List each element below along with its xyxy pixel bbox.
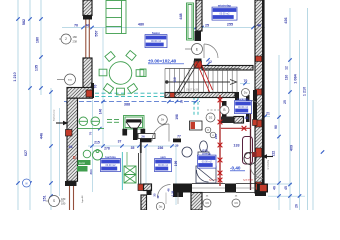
svg-text:kocio: kocio [79,161,86,165]
svg-text:90: 90 [274,125,278,129]
svg-text:00.00 m2: 00.00 m2 [158,164,169,167]
svg-text:45: 45 [284,186,288,190]
svg-text:70: 70 [244,79,248,83]
svg-text:180: 180 [61,197,66,201]
svg-text:151: 151 [43,195,47,201]
svg-text:Dri: Dri [161,118,165,121]
svg-text:C9: C9 [205,201,209,205]
svg-text:21: 21 [266,112,270,116]
svg-text:12: 12 [208,60,212,64]
svg-text:46: 46 [245,116,249,120]
svg-text:25: 25 [175,144,179,148]
svg-text:Dct: Dct [159,205,163,208]
svg-text:26: 26 [295,204,299,208]
svg-text:kuchnia: kuchnia [105,155,116,159]
svg-text:-0,40: -0,40 [230,166,241,171]
svg-text:D2: D2 [209,116,213,120]
svg-text:260: 260 [214,134,218,139]
svg-text:278: 278 [104,147,110,151]
svg-text:wiatrołap: wiatrołap [217,3,231,7]
svg-text:388: 388 [124,103,130,107]
svg-text:238: 238 [73,40,78,44]
svg-text:hydr.Ø115: hydr.Ø115 [209,179,220,182]
svg-text:1 084: 1 084 [294,73,298,83]
svg-text:135: 135 [35,65,39,71]
svg-text:46: 46 [68,145,72,149]
svg-text:00.00 m2: 00.00 m2 [238,106,249,109]
svg-text:Do: Do [244,91,248,95]
svg-text:409: 409 [289,145,293,151]
svg-text:77: 77 [177,135,181,139]
svg-text:480: 480 [138,23,144,27]
svg-text:46: 46 [273,186,277,190]
svg-text:28: 28 [180,100,184,104]
svg-text:70: 70 [94,85,98,89]
svg-text:133: 133 [233,144,239,148]
svg-text:180: 180 [61,202,66,206]
svg-text:1 210: 1 210 [13,72,17,81]
svg-text:hydr.Ø115: hydr.Ø115 [243,179,254,182]
svg-text:00.00 m2: 00.00 m2 [220,12,231,15]
svg-text:C9: C9 [234,201,238,205]
svg-text:1 210: 1 210 [303,87,307,96]
svg-text:70: 70 [74,23,78,27]
svg-text:E: E [73,155,76,160]
svg-text:448: 448 [179,13,183,19]
svg-text:±0.00=102,40: ±0.00=102,40 [148,59,177,64]
svg-text:199: 199 [174,161,178,167]
svg-text:180: 180 [36,37,40,43]
svg-text:255: 255 [227,23,233,27]
svg-text:110: 110 [173,77,177,82]
svg-text:364: 364 [89,169,93,174]
svg-text:70: 70 [89,132,93,136]
svg-text:25: 25 [205,23,209,27]
svg-text:kpn 86: kpn 86 [82,195,84,203]
svg-text:627: 627 [24,150,28,156]
svg-text:180: 180 [73,35,78,39]
svg-text:37: 37 [118,139,122,143]
svg-text:Ø15: Ø15 [202,149,208,153]
svg-text:00.00 m2: 00.00 m2 [202,160,213,163]
svg-text:12: 12 [285,66,289,70]
svg-text:236: 236 [158,146,164,150]
svg-text:Nawiew pow.: Nawiew pow. [54,109,56,121]
svg-text:2: 2 [65,37,67,41]
svg-text:222: 222 [272,151,276,157]
svg-text:146: 146 [99,109,103,115]
svg-text:198: 198 [175,114,179,120]
svg-text:46: 46 [257,23,261,27]
svg-text:557: 557 [95,30,99,36]
svg-text:215: 215 [94,140,100,144]
svg-text:sień: sień [160,155,166,159]
svg-text:00.00 m2: 00.00 m2 [106,164,117,167]
svg-text:26: 26 [141,134,145,138]
svg-text:Salon: Salon [152,31,160,35]
svg-text:436: 436 [284,17,288,23]
svg-text:Nawiew do: Nawiew do [267,160,269,171]
svg-text:12: 12 [156,195,160,199]
svg-text:25: 25 [283,100,287,104]
svg-text:-1,38: -1,38 [171,190,175,197]
svg-text:00.00 m2: 00.00 m2 [151,40,162,43]
svg-text:46: 46 [85,23,89,27]
svg-text:110: 110 [285,75,289,80]
svg-text:582: 582 [22,19,26,25]
svg-text:446: 446 [40,133,44,139]
svg-text:B: B [223,108,225,112]
svg-text:19x17,9x28: 19x17,9x28 [186,90,199,92]
svg-text:35: 35 [131,146,135,150]
svg-text:Łazienka: Łazienka [238,97,250,101]
